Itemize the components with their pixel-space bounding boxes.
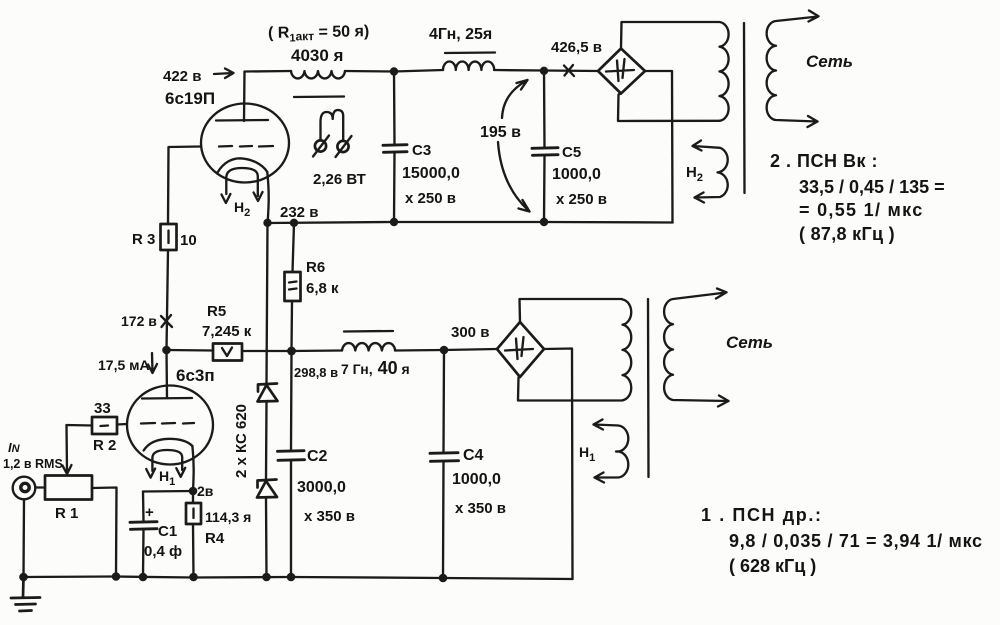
wire node to R5 <box>167 349 214 352</box>
wire bridge VD2 top to transformer T1 primary <box>520 299 623 322</box>
svg-text:R4: R4 <box>205 530 225 547</box>
svg-text:x 350 в: x 350 в <box>455 500 506 517</box>
R6 inner mark <box>289 282 297 290</box>
svg-text:422 в: 422 в <box>163 68 201 85</box>
svg-text:114,3 я: 114,3 я <box>205 509 251 525</box>
resistor R2 box <box>92 417 117 434</box>
zener chain wire from 232V node <box>267 223 268 383</box>
node anode U2 / R5 <box>162 346 171 355</box>
svg-text:0,4 ф: 0,4 ф <box>144 543 182 560</box>
232V rail <box>268 222 673 223</box>
ground symbol <box>11 577 40 611</box>
capacitor C5 plates <box>532 148 558 156</box>
svg-text:1 . ПСН др.:: 1 . ПСН др.: <box>701 505 823 525</box>
choke L3 7Gn 40ohm (bumps above) <box>342 343 395 350</box>
svg-text:172 в: 172 в <box>121 313 157 329</box>
svg-text:195 в: 195 в <box>480 124 521 141</box>
heater winding H1 of T1 with arrows <box>594 420 629 483</box>
node junction top-left <box>390 67 398 75</box>
tube U2 grid (dashed) <box>141 422 194 425</box>
wire R3 to anode node of U2 <box>167 250 169 350</box>
node R4 bottom <box>189 573 198 582</box>
zener diode VD4 (KS620) <box>257 480 277 498</box>
tube U2 anode plate <box>142 397 192 400</box>
R5 inner mark <box>222 348 232 357</box>
diode bridge VD1 (diamond) <box>598 49 645 94</box>
svg-text:33,5 / 0,45 / 135 =: 33,5 / 0,45 / 135 = <box>799 177 945 197</box>
svg-text:C2: C2 <box>307 448 328 465</box>
potentiometer R1 box <box>45 476 92 500</box>
wire choke to 300V node <box>395 349 444 352</box>
bridge VD2 inner diode mark <box>505 337 533 359</box>
wire bridge VD2 right corner down to ground rail <box>544 349 573 580</box>
arrow 17,5mA down <box>148 353 157 373</box>
wire cathode node to C1 <box>143 490 193 493</box>
capacitor C3 lower wire <box>393 153 396 222</box>
svg-text:= 0,55 1/ мкс: = 0,55 1/ мкс <box>799 200 924 220</box>
svg-text:232 в: 232 в <box>280 204 318 221</box>
svg-text:2в: 2в <box>197 483 214 499</box>
298V rail to choke <box>292 349 343 352</box>
core line of L1 <box>294 95 344 98</box>
svg-text:6,8 к: 6,8 к <box>306 280 339 297</box>
wire R6 bottom to 298V rail <box>290 301 293 351</box>
wire 300V node to bridge VD2 <box>444 349 497 350</box>
transformer T2 secondary winding with output arrows (Set) <box>767 11 819 128</box>
svg-text:7 Гн, 40 я: 7 Гн, 40 я <box>341 358 410 378</box>
tube U1 6s19p envelope <box>201 104 289 183</box>
input jack X1 <box>13 477 36 500</box>
resistor R3 box <box>161 224 177 250</box>
capacitor C2 plates <box>278 451 305 461</box>
svg-text:Сеть: Сеть <box>806 52 853 71</box>
svg-text:33: 33 <box>94 400 111 417</box>
tube U1 grid (dashed) <box>219 145 273 148</box>
svg-text:6с19П: 6с19П <box>165 89 215 108</box>
resistor R5 box <box>213 344 242 361</box>
ground rail (bottom) <box>24 577 573 580</box>
R3 inner mark <box>167 231 169 244</box>
capacitor C2 lower wire <box>290 461 292 577</box>
wire tube U1 cathode to 232V node <box>267 172 268 223</box>
svg-text:C3: C3 <box>412 142 431 159</box>
svg-text:R 2: R 2 <box>93 437 116 454</box>
resistor R4 box <box>186 503 201 524</box>
x mark on wire <box>564 65 574 76</box>
wire anode riser of tube U2 <box>165 350 168 398</box>
svg-text:6с3п: 6с3п <box>176 366 215 385</box>
diode bridge VD2 (diamond) <box>497 322 544 377</box>
wire bridge right corner down to 232V rail <box>645 71 673 223</box>
node R6 top <box>290 219 298 227</box>
node ground jack <box>19 573 28 582</box>
wire R5 to node 298V (crosses zener line) <box>242 350 292 352</box>
capacitor C1 lower wire <box>142 530 145 577</box>
svg-text:15000,0: 15000,0 <box>402 165 460 182</box>
node 232V left <box>263 219 271 227</box>
node C1 bottom <box>139 573 148 582</box>
capacitor C1 upper wire <box>142 492 145 522</box>
wire R2 to R1 wiper with arrow <box>63 425 93 474</box>
wire bridge top corner to transformer T2 primary top <box>621 22 719 49</box>
wire R4 lower to ground rail <box>192 524 195 577</box>
node R1 bottom <box>112 572 121 581</box>
tube U2 6s3p envelope <box>127 386 213 465</box>
svg-text:( 87,8 кГц ): ( 87,8 кГц ) <box>799 224 895 244</box>
wire between zeners <box>265 402 268 480</box>
svg-text:R6: R6 <box>306 259 325 276</box>
R2 inner mark <box>101 424 109 427</box>
wire R1 right to ground rail <box>92 488 117 577</box>
resistor R6 box <box>285 272 301 301</box>
core line of choke L3 <box>344 330 393 333</box>
svg-text:x 250 в: x 250 в <box>556 191 607 208</box>
transformer T2 core <box>743 23 746 193</box>
inductor L1 4030ohm (bumps below wire) <box>291 71 345 78</box>
tube U2 cathode arch <box>144 439 193 451</box>
wire anode riser and top rail to L1 <box>244 71 291 121</box>
capacitor C3 branch upper wire <box>393 72 396 145</box>
node zener bottom <box>262 573 271 582</box>
svg-text:2 . ПСН Вк :: 2 . ПСН Вк : <box>770 151 878 171</box>
lamp symbol pair (filament indicator) <box>321 110 344 141</box>
svg-text:C4: C4 <box>463 447 484 464</box>
wire L1 to node <box>345 70 394 73</box>
wire L2 to node <box>494 69 544 72</box>
svg-text:R 3: R 3 <box>132 231 155 248</box>
node 298V <box>287 347 296 356</box>
wire jack to R1 <box>36 486 46 488</box>
svg-text:4030 я: 4030 я <box>291 46 343 65</box>
svg-text:4Гн, 25я: 4Гн, 25я <box>429 26 492 43</box>
curved arrow up to node <box>502 80 528 118</box>
lamp slash left <box>313 136 329 157</box>
curved arrow down to rail <box>498 142 530 212</box>
wire grid of U1 to R3 <box>168 147 201 225</box>
svg-text:1000,0: 1000,0 <box>452 471 501 488</box>
wire T1 primary bottom to bridge bottom corner <box>518 377 623 401</box>
svg-text:9,8 / 0,035 / 71 = 3,94 1/ м: 9,8 / 0,035 / 71 = 3,94 1/ мкс <box>729 531 983 551</box>
svg-text:17,5 мА: 17,5 мА <box>98 357 150 373</box>
tube U1 cathode arch <box>218 158 268 172</box>
arrow 422V pointing right <box>214 69 234 79</box>
node 300V <box>440 346 449 355</box>
svg-text:IN: IN <box>8 440 21 455</box>
tube U1 anode plate <box>216 119 268 122</box>
svg-text:1000,0: 1000,0 <box>552 166 601 183</box>
svg-text:300 в: 300 в <box>451 324 489 341</box>
capacitor C2 upper wire <box>290 351 293 450</box>
wire zener to ground rail <box>265 498 268 578</box>
wire T2 primary bottom to bridge bottom corner <box>618 94 720 122</box>
wire tube U2 cathode to 2V node <box>192 446 193 491</box>
core line of L2 <box>445 51 495 54</box>
svg-text:Сеть: Сеть <box>726 333 773 352</box>
transformer T2 primary winding <box>720 22 729 121</box>
svg-text:C1: C1 <box>158 523 177 540</box>
svg-text:+: + <box>145 504 154 521</box>
input jack center pin <box>21 483 29 491</box>
tube U1 heater dome with arrows H2 <box>222 168 263 203</box>
wire node to bridge left corner <box>544 69 598 72</box>
wire R4 upper <box>192 491 194 503</box>
transformer T1 secondary winding with output arrows (Set) <box>664 289 728 407</box>
inductor L2 4Gn (bumps above wire) <box>443 62 494 71</box>
node C3 bottom <box>390 218 398 226</box>
node C5 bottom <box>540 218 548 226</box>
svg-text:2,26 ВТ: 2,26 ВТ <box>313 171 366 188</box>
svg-text:3000,0: 3000,0 <box>297 479 346 496</box>
wire node to L2 <box>394 70 443 72</box>
svg-text:1,2 в RMS: 1,2 в RMS <box>3 457 63 471</box>
svg-text:( 628 кГц ): ( 628 кГц ) <box>729 556 816 576</box>
svg-text:x 250 в: x 250 в <box>405 190 456 207</box>
node C4 bottom <box>439 574 448 583</box>
svg-text:426,5 в: 426,5 в <box>551 39 602 56</box>
tube U2 heater dome with arrows H1 <box>146 450 185 478</box>
capacitor C5 branch upper wire <box>543 71 546 147</box>
heater winding H2 of T2 with arrows <box>693 141 728 203</box>
capacitor C4 plates <box>430 453 459 462</box>
node 2V <box>189 487 198 496</box>
svg-text:x 350 в: x 350 в <box>304 508 355 525</box>
capacitor C4 lower wire <box>442 462 445 578</box>
svg-text:10: 10 <box>180 232 197 249</box>
zener diode VD3 (KS620) <box>258 384 278 402</box>
lamp slash right <box>336 136 352 157</box>
svg-text:298,8 в: 298,8 в <box>294 365 338 380</box>
x mark 172V <box>161 315 172 327</box>
lamp circle left <box>315 140 326 151</box>
R4 inner mark <box>192 509 194 519</box>
node C2 bottom <box>287 573 296 582</box>
capacitor C5 lower wire <box>543 156 546 222</box>
wire grid of U2 to R2 <box>117 423 127 426</box>
svg-text:R 1: R 1 <box>55 505 78 522</box>
node junction at C5 top <box>540 67 548 75</box>
transformer T1 core <box>647 299 650 477</box>
capacitor C3 plates <box>383 145 407 153</box>
bridge VD1 inner diode mark <box>606 59 634 81</box>
capacitor C4 upper wire <box>442 350 445 452</box>
transformer T1 primary winding <box>623 300 632 401</box>
lamp circle right <box>337 141 348 152</box>
svg-text:C5: C5 <box>562 144 581 161</box>
wire jack sleeve down to ground rail <box>22 499 25 577</box>
capacitor C1 plates <box>130 522 157 530</box>
svg-text:7,245 к: 7,245 к <box>202 323 252 340</box>
wire R6 upper <box>293 223 295 272</box>
svg-text:2 х КС 620: 2 х КС 620 <box>233 404 250 478</box>
svg-text:R5: R5 <box>207 303 226 320</box>
